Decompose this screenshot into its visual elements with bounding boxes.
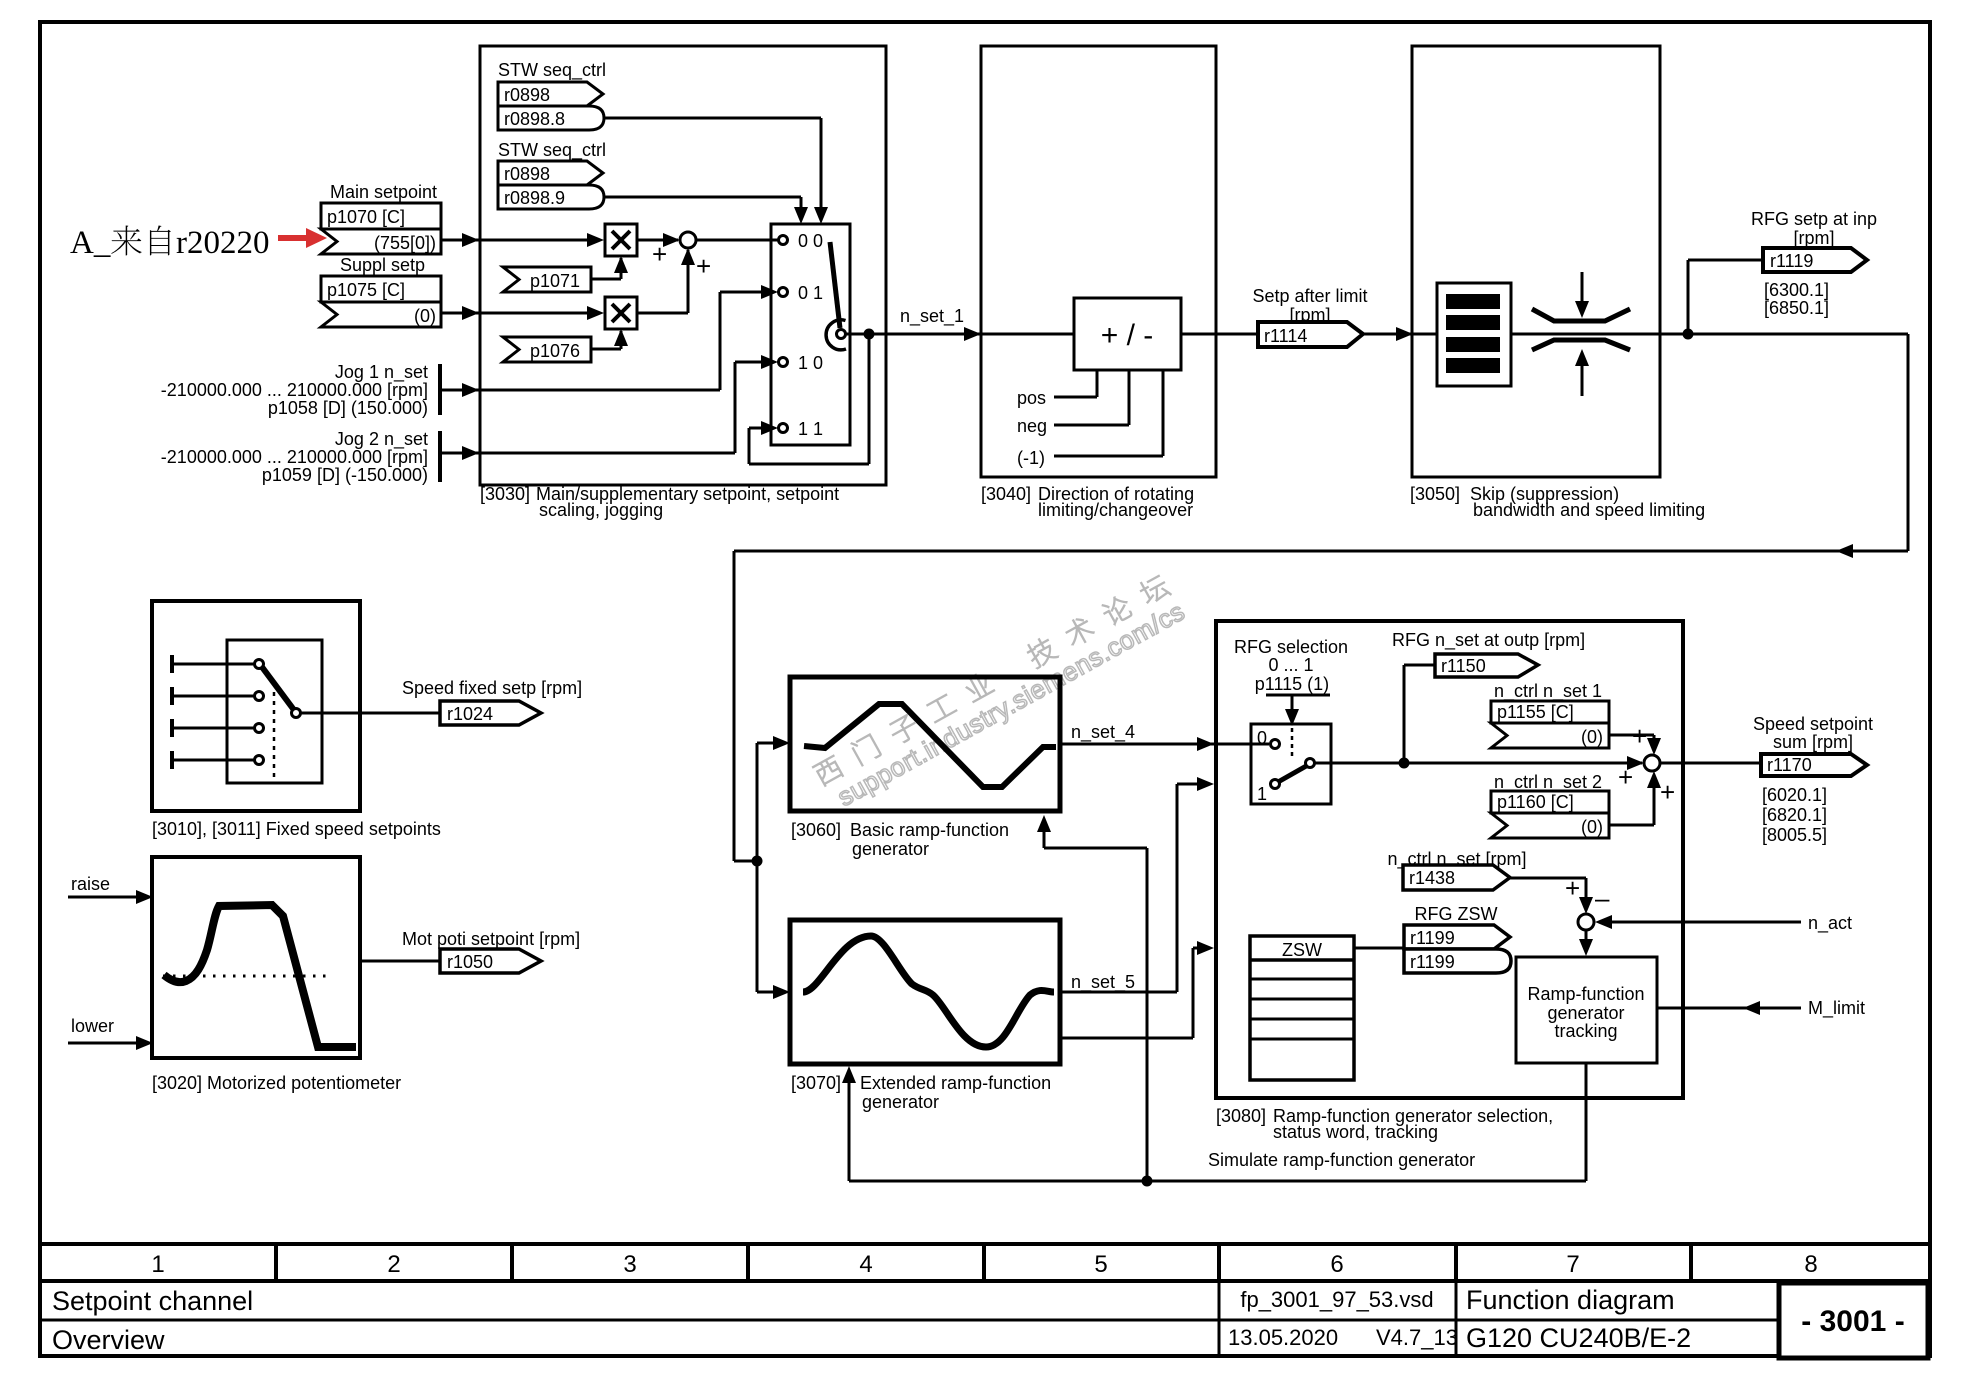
label Jog 2 n_set (161, 429, 428, 485)
label STW seq_ctrl 2 (498, 140, 606, 161)
label RFG setp at inp (1751, 209, 1877, 248)
svg-text:0: 0 (1257, 728, 1267, 748)
parameter box p1070 [C] (321, 203, 441, 229)
svg-text:(0): (0) (1581, 727, 1603, 747)
svg-text:1 1: 1 1 (798, 419, 823, 439)
svg-text:STW seq_ctrl: STW seq_ctrl (498, 140, 606, 161)
svg-text:1 0: 1 0 (798, 353, 823, 373)
svg-text:r1119: r1119 (1770, 251, 1813, 271)
svg-text:M_limit: M_limit (1808, 998, 1865, 1019)
selector pivot (837, 330, 846, 339)
label Mot poti setpoint (402, 929, 580, 949)
svg-text:r1114: r1114 (1264, 326, 1307, 346)
title block column numbers (151, 1251, 1817, 1278)
caption 3050 (1410, 484, 1705, 520)
connector r1438 (1403, 865, 1510, 890)
svg-text:p1160 [C]: p1160 [C] (1497, 792, 1574, 812)
svg-text:lower: lower (71, 1016, 114, 1036)
svg-text:r20220: r20220 (176, 225, 270, 261)
svg-text:p1115 (1): p1115 (1) (1255, 674, 1329, 694)
connector p1071 (503, 267, 591, 292)
wire motpoti output (360, 960, 440, 963)
svg-text:G120 CU240B/E-2: G120 CU240B/E-2 (1466, 1323, 1691, 1353)
connector r1170 (1761, 754, 1867, 776)
wire p1071 to multiplier1 (591, 256, 628, 279)
label Main setpoint (330, 182, 437, 202)
jog2 bracket bar (438, 431, 442, 482)
speed limiter symbol (1532, 272, 1630, 396)
fixed setpoint input 3 (172, 719, 264, 737)
wire n_set_5 (1060, 777, 1214, 992)
svg-text:[6020.1]: [6020.1] (1762, 785, 1827, 805)
label n_set_1 (900, 306, 964, 327)
svg-text:STW seq_ctrl: STW seq_ctrl (498, 60, 606, 81)
svg-text:r1199: r1199 (1410, 952, 1455, 972)
box 3040 Direction of rotating (981, 46, 1216, 477)
title block number row separators (276, 1244, 1691, 1281)
svg-text:Setpoint channel: Setpoint channel (52, 1286, 253, 1316)
svg-text:Mot poti setpoint [rpm]: Mot poti setpoint [rpm] (402, 929, 580, 949)
svg-text:n_ctrl n_set 1: n_ctrl n_set 1 (1494, 681, 1602, 702)
RFG selector lever (1278, 765, 1308, 782)
wire r1114 to 3050 (1363, 327, 1437, 341)
svg-text:6: 6 (1330, 1251, 1343, 1278)
box 3080 RFG selection (1216, 621, 1683, 1098)
summing point speed setpoint (1644, 755, 1660, 771)
input connector p1160 (0) (1491, 813, 1609, 838)
wire simulate ramp-function generator (842, 1063, 1586, 1181)
label n_set_5 (1071, 972, 1135, 993)
parameter box p1075 [C] (321, 276, 441, 302)
svg-text:r1199: r1199 (1410, 928, 1455, 948)
wire r1150 branch (1404, 665, 1435, 763)
svg-text:[3020] Motorized potentiomete: [3020] Motorized potentiometer (152, 1073, 401, 1093)
label minus (1595, 883, 1610, 913)
svg-text:V4.7_13: V4.7_13 (1376, 1325, 1458, 1350)
junction lower feed (752, 856, 763, 867)
svg-text:7: 7 (1566, 1251, 1579, 1278)
fixed setpoint selector inner box (227, 640, 322, 783)
summing point 1 (680, 232, 696, 248)
input connector (0) (321, 302, 441, 327)
svg-text:Main setpoint: Main setpoint (330, 182, 437, 202)
svg-text:raise: raise (71, 874, 110, 894)
svg-text:sum [rpm]: sum [rpm] (1773, 732, 1853, 752)
wire selector feedback to 11 (749, 334, 869, 464)
svg-text:(0): (0) (1581, 817, 1603, 837)
svg-text:[8005.5]: [8005.5] (1762, 825, 1827, 845)
svg-text:p1070 [C]: p1070 [C] (327, 207, 405, 227)
svg-text:r0898.8: r0898.8 (504, 109, 565, 129)
skip band block (1437, 283, 1511, 386)
wire summer to r1170 (1660, 762, 1761, 765)
input (-1) (1017, 370, 1163, 468)
box 3010 3011 fixed speed setpoints (152, 601, 360, 811)
motpoti dotted zero line (163, 975, 327, 978)
wire p1115 control (1266, 695, 1330, 726)
tracking box (1516, 957, 1657, 1063)
connector r1050 (440, 949, 541, 973)
svg-text:r0898.9: r0898.9 (504, 188, 565, 208)
box 3020 motorized potentiometer (152, 857, 360, 1058)
svg-text:Function diagram: Function diagram (1466, 1285, 1675, 1315)
label RFG n_set at outp (1392, 630, 1585, 651)
title text G120 CU240B/E-2 (1466, 1323, 1691, 1353)
box 3060 basic ramp-function generator (790, 677, 1060, 811)
svg-text:+: + (696, 251, 711, 281)
svg-text:n_set_1: n_set_1 (900, 306, 964, 327)
RFG selector switch box (1251, 724, 1331, 804)
svg-text:generator: generator (1547, 1003, 1624, 1023)
tracking summer (1578, 914, 1594, 930)
svg-text:+: + (1565, 873, 1580, 903)
svg-text:–: – (1595, 883, 1610, 913)
label STW seq_ctrl 1 (498, 60, 606, 81)
svg-text:[3070]: [3070] (791, 1073, 841, 1093)
wire r0898.8 to switch (604, 118, 828, 224)
label RFG ZSW (1415, 904, 1498, 924)
multiplier 1 (605, 224, 637, 256)
title text vsd file (1240, 1287, 1433, 1312)
svg-text:status word, tracking: status word, tracking (1273, 1122, 1438, 1142)
label Simulate ramp-function generator (1208, 1150, 1475, 1170)
sine waveform 3070 (803, 936, 1054, 1047)
svg-text:Speed setpoint: Speed setpoint (1753, 714, 1873, 734)
caption 3010 3011 (152, 819, 441, 839)
svg-text:bandwidth and speed limiting: bandwidth and speed limiting (1473, 500, 1705, 520)
svg-text:Setp after limit: Setp after limit (1252, 286, 1367, 306)
wire suppl setp to multiplier (441, 306, 604, 320)
caption 3080 (1216, 1106, 1553, 1142)
wire p1155 to summer (1609, 721, 1661, 755)
connector r1114 (1258, 322, 1363, 347)
fixed setpoint lever (262, 667, 301, 718)
svg-text:[3030]: [3030] (480, 484, 530, 504)
svg-text:Simulate ramp-function generat: Simulate ramp-function generator (1208, 1150, 1475, 1170)
caption 3070 (791, 1073, 1051, 1112)
svg-text:fp_3001_97_53.vsd: fp_3001_97_53.vsd (1240, 1287, 1433, 1312)
svg-text:scaling, jogging: scaling, jogging (539, 500, 663, 520)
svg-text:+: + (1660, 777, 1675, 807)
svg-text:Overview: Overview (52, 1325, 165, 1355)
svg-text:r1024: r1024 (447, 704, 493, 724)
caption 3020 (152, 1073, 401, 1093)
box 3070 extended ramp-function generator (790, 920, 1060, 1064)
label Speed setpoint sum (1753, 714, 1873, 752)
wire feed to 3060 and 3070 (757, 736, 790, 999)
wire main setpoint to multiplier (441, 233, 604, 247)
RFG selector dashed control line (1291, 728, 1294, 760)
label n_ctrl n_set 2 (1494, 762, 1633, 793)
svg-text:-210000.000 ... 210000.000 [r: -210000.000 ... 210000.000 [rpm] (161, 447, 428, 467)
svg-text:[rpm]: [rpm] (1793, 228, 1834, 248)
svg-text:p1075 [C]: p1075 [C] (327, 280, 405, 300)
caption 3030 (480, 484, 839, 520)
wire n_set_4 (1062, 737, 1269, 751)
wire summer to selector (696, 239, 779, 242)
selector terminal 00 (779, 236, 788, 245)
svg-text:[3010], [3011] Fixed speed se: [3010], [3011] Fixed speed setpoints (152, 819, 441, 839)
label Speed fixed setp (402, 678, 582, 698)
label refs 6300.1 6850.1 (1764, 280, 1829, 318)
svg-text:1: 1 (151, 1251, 164, 1278)
svg-text:tracking: tracking (1554, 1021, 1617, 1041)
svg-text:(0): (0) (414, 306, 436, 326)
svg-text:limiting/changeover: limiting/changeover (1038, 500, 1193, 520)
selector terminal 10 (779, 358, 788, 367)
fixed setpoint input 1 (172, 655, 264, 673)
wire selector output n_set_1 (845, 327, 1074, 341)
junction after 3050 (1683, 329, 1694, 340)
fixed setpoint dashed line (273, 692, 276, 779)
svg-text:-210000.000 ... 210000.000 [r: -210000.000 ... 210000.000 [rpm] (161, 380, 428, 400)
svg-text:RFG setp at inp: RFG setp at inp (1751, 209, 1877, 229)
svg-text:p1155 [C]: p1155 [C] (1497, 702, 1574, 722)
RFG selector terminal 1 (1271, 780, 1280, 789)
wire jog1 (440, 285, 778, 397)
input pos (1017, 370, 1097, 408)
svg-text:n_set_4: n_set_4 (1071, 722, 1135, 743)
svg-text:[3060]: [3060] (791, 820, 841, 840)
ZSW table (1250, 936, 1354, 1080)
wire M_limit (1657, 998, 1865, 1019)
svg-text:neg: neg (1017, 416, 1047, 436)
selector terminal 11 (779, 424, 788, 433)
svg-text:n_act: n_act (1808, 913, 1852, 934)
wire p1160 to summer (1609, 771, 1675, 825)
title block top line (40, 1242, 1930, 1246)
wire jog2 (440, 355, 778, 460)
svg-text:RFG n_set at outp [rpm]: RFG n_set at outp [rpm] (1392, 630, 1585, 651)
wire r1119 branch (1688, 260, 1763, 334)
wire ZSW to r1199 (1354, 947, 1404, 950)
svg-text:1: 1 (1257, 784, 1267, 804)
svg-text:Ramp-function: Ramp-function (1527, 984, 1644, 1004)
label n_ctrl n_set rpm (1387, 849, 1526, 870)
node A_来自r20220 label (70, 225, 270, 261)
svg-text:[3040]: [3040] (981, 484, 1031, 504)
svg-text:generator: generator (852, 839, 929, 859)
wire fixed setpoint output (300, 712, 440, 715)
title text date version (1228, 1325, 1458, 1350)
title text Function diagram (1466, 1285, 1675, 1315)
ramp waveform 3060 (804, 704, 1056, 787)
fixed setpoint input 4 (172, 751, 264, 769)
fixed setpoint input 2 (172, 687, 264, 705)
jog1 bracket bar (438, 364, 442, 415)
RFG selector terminal 0 (1271, 740, 1280, 749)
svg-text:Speed fixed setp [rpm]: Speed fixed setp [rpm] (402, 678, 582, 698)
svg-text:0 ... 1: 0 ... 1 (1268, 655, 1313, 675)
svg-text:p1058 [D] (150.000): p1058 [D] (150.000) (268, 398, 428, 418)
page number box -3001- (1779, 1283, 1928, 1358)
svg-text:(-1): (-1) (1017, 448, 1045, 468)
svg-text:[6820.1]: [6820.1] (1762, 805, 1827, 825)
input connector (755[0]) (321, 229, 441, 254)
svg-text:Extended ramp-function: Extended ramp-function (860, 1073, 1051, 1093)
connector r0898 (word) (498, 82, 603, 106)
svg-text:RFG ZSW: RFG ZSW (1415, 904, 1498, 924)
title text Overview (52, 1325, 165, 1355)
title block row lines (40, 1281, 1930, 1356)
label n_set_4 (1071, 722, 1135, 743)
svg-text:0 0: 0 0 (798, 231, 823, 251)
box 3030 Main/supplementary setpoint (480, 46, 886, 485)
svg-text:r0898: r0898 (504, 164, 550, 184)
selector lever (826, 242, 846, 350)
multiplier 2 (605, 297, 637, 329)
input neg (1017, 370, 1129, 436)
wire multiplier1 to summer (637, 233, 680, 269)
input lower (68, 1016, 153, 1050)
svg-text:r1150: r1150 (1441, 656, 1486, 676)
label n_ctrl n_set 1 (1494, 681, 1602, 702)
label Setp after limit (1252, 286, 1367, 325)
input connector p1155 (0) (1491, 723, 1609, 748)
wire r0898.9 to switch (604, 197, 808, 224)
wire through 3050 (1511, 333, 1688, 336)
svg-text:r1438: r1438 (1409, 868, 1455, 888)
svg-text:3: 3 (623, 1251, 636, 1278)
input raise (68, 874, 153, 904)
wire summer to tracking box (1579, 930, 1593, 956)
svg-text:+: + (1632, 721, 1647, 751)
connector r1119 (1763, 248, 1867, 272)
svg-text:8: 8 (1804, 1251, 1817, 1278)
RFG selector output terminal (1306, 759, 1315, 768)
svg-text:p1059 [D] (-150.000): p1059 [D] (-150.000) (262, 465, 428, 485)
wire multiplier2 to summer (637, 248, 711, 313)
selector switch box 3030 (771, 224, 850, 445)
svg-text:[6850.1]: [6850.1] (1764, 298, 1829, 318)
parameter box p1155 [C] (1491, 701, 1609, 723)
svg-text:A_: A_ (70, 225, 111, 261)
svg-text:Suppl setp: Suppl setp (340, 255, 425, 275)
wire n_act (1595, 913, 1852, 934)
motpoti curve (164, 905, 356, 1047)
junction simulate line (1142, 1176, 1153, 1187)
wire p1076 to multiplier2 (591, 329, 628, 349)
parameter box p1160 [C] (1491, 791, 1609, 813)
caption 3040 (981, 484, 1194, 520)
connector r1199 bit (1404, 949, 1511, 973)
red arrow pointer (278, 228, 327, 248)
connector p1076 (503, 337, 591, 362)
wire branch to 3060 bottom (1037, 815, 1147, 1181)
svg-text:generator: generator (862, 1092, 939, 1112)
caption 3060 (791, 820, 1009, 859)
connector r1024 (440, 701, 541, 725)
svg-text:+: + (1618, 762, 1633, 792)
svg-text:n_set_5: n_set_5 (1071, 972, 1135, 993)
svg-text:- 3001 -: - 3001 - (1801, 1305, 1904, 1338)
connector r1199 word (1404, 925, 1510, 949)
svg-text:[3080]: [3080] (1216, 1106, 1266, 1126)
svg-text:ZSW: ZSW (1282, 940, 1322, 960)
connector r0898.8 (bit) (498, 106, 604, 130)
label RFG selection (1234, 637, 1348, 694)
svg-text:[6300.1]: [6300.1] (1764, 280, 1829, 300)
svg-text:[3050]: [3050] (1410, 484, 1460, 504)
svg-text:0 1: 0 1 (798, 283, 823, 303)
svg-text:+: + (652, 239, 667, 269)
label refs 6020.1 6820.1 8005.5 (1762, 785, 1827, 845)
svg-text:+ / -: + / - (1101, 319, 1154, 352)
selector terminal 01 (779, 288, 788, 297)
connector r0898.9 (bit) (498, 185, 604, 209)
box 3050 Skip bandwidth (1412, 46, 1660, 477)
svg-text:p1071: p1071 (530, 271, 580, 291)
wire RFG output to summer (1314, 756, 1644, 770)
title text Setpoint channel (52, 1286, 253, 1316)
svg-text:2: 2 (387, 1251, 400, 1278)
wire feedback top right to lower blocks (734, 334, 1908, 861)
svg-text:r1170: r1170 (1767, 755, 1812, 775)
svg-text:pos: pos (1017, 388, 1046, 408)
svg-text:4: 4 (859, 1251, 872, 1278)
svg-text:p1076: p1076 (530, 341, 580, 361)
label Jog 1 n_set (161, 362, 428, 418)
svg-text:(755[0]): (755[0]) (374, 233, 436, 253)
svg-text:RFG selection: RFG selection (1234, 637, 1348, 657)
block +/- (1074, 298, 1181, 370)
WATERMARK (811, 571, 1189, 816)
connector r0898 (word) 2 (498, 161, 603, 185)
svg-text:Basic ramp-function: Basic ramp-function (850, 820, 1009, 840)
wire 3070 to ZSW (1060, 941, 1214, 1038)
wire +/- output (1181, 333, 1258, 336)
wire r1438 to tracking summer (1510, 873, 1593, 914)
connector r1150 (1435, 654, 1538, 677)
svg-text:5: 5 (1094, 1251, 1107, 1278)
label Suppl setp (340, 255, 425, 275)
svg-text:r1050: r1050 (447, 952, 493, 972)
svg-text:r0898: r0898 (504, 85, 550, 105)
svg-text:13.05.2020: 13.05.2020 (1228, 1325, 1338, 1350)
